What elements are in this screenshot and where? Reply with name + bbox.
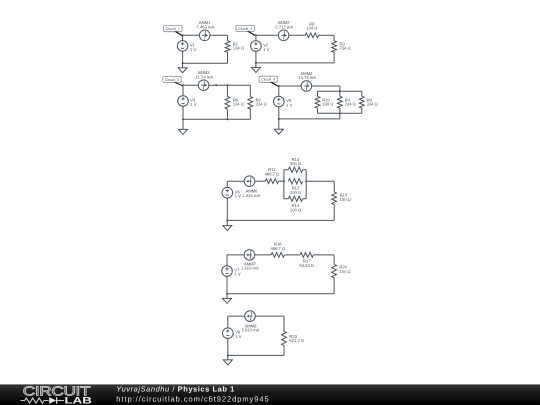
wire V3 bottom lead: [182, 106, 184, 119]
node A3 junction: [182, 84, 184, 86]
wire node-to-AMM2: [256, 34, 278, 36]
junction c3 bottom: [182, 118, 184, 120]
wire node-to-AMM3: [183, 84, 198, 86]
resistor R11: [265, 179, 278, 184]
label R1 value 134 ohm: [233, 41, 244, 50]
resistor R3: [332, 41, 337, 53]
wire V7 top lead: [226, 255, 228, 266]
ground c1: [178, 63, 187, 72]
wire R13 right lead: [303, 169, 307, 171]
junction top rail c4: [339, 90, 341, 92]
label R16 value 466.7 ohm: [270, 242, 285, 251]
resistor R13: [288, 167, 302, 172]
wire V6 bottom lead: [226, 198, 228, 220]
label V3 value 1 V: [190, 98, 196, 107]
resistor R16: [271, 253, 284, 258]
wire V5 top lead: [278, 86, 280, 96]
ammeter AMM6: [244, 176, 255, 187]
label flag Circuit_2: [236, 25, 257, 36]
label R13 value 300 ohm: [290, 157, 301, 166]
svg-text:100 Ω: 100 Ω: [290, 207, 301, 212]
svg-text:300 Ω: 300 Ω: [290, 161, 301, 166]
wire right rail c5: [305, 170, 307, 199]
label AMM3 value -11.74 mA: [194, 70, 213, 79]
wire down to top rail c4: [339, 86, 341, 91]
label R14 value 100 ohm: [290, 203, 301, 212]
wire V1 bottom lead: [182, 51, 184, 63]
label R15 value 100 ohm: [340, 193, 351, 202]
svg-text:1 V: 1 V: [263, 47, 269, 52]
node A2 junction: [255, 34, 257, 36]
resistor R1: [225, 41, 230, 53]
wire V5 bottom lead: [278, 107, 280, 119]
resistor R17: [300, 253, 313, 258]
wire V8 top lead: [227, 316, 229, 328]
ground c6: [223, 294, 232, 304]
wire V2 top lead: [255, 35, 257, 40]
ground c5: [223, 220, 232, 230]
wire V6-to-AMM6: [227, 180, 244, 182]
label R2 value 234 ohm: [256, 98, 267, 107]
label AMM1 value -7.463 mA: [195, 20, 214, 29]
ammeter AMM8: [245, 311, 256, 322]
wire bottom rail c2: [256, 62, 334, 64]
label R9 value 334 ohm: [367, 97, 378, 106]
wire R4 top lead: [339, 91, 341, 96]
wire V7 bottom lead: [226, 276, 228, 293]
label AMM7 value 1.610 mA: [241, 262, 259, 271]
svg-text:234 Ω: 234 Ω: [256, 102, 267, 107]
label R8 value 134 ohm: [306, 21, 317, 30]
junction bottom rail c3: [226, 118, 228, 120]
wire R3 bottom lead: [333, 52, 335, 63]
resistor R12: [288, 179, 302, 184]
ground c3: [179, 119, 188, 134]
svg-text:Circuit_1: Circuit_1: [166, 27, 180, 31]
label V6 value 1 V: [235, 189, 241, 198]
wire R2 bottom lead: [249, 109, 251, 119]
label V7 value 1 V: [234, 267, 240, 276]
wire R14 left lead: [284, 198, 289, 200]
wire bottom rail c3: [183, 118, 250, 120]
wire bottom rail c1: [183, 62, 228, 64]
ground c4: [274, 119, 283, 134]
label V1 value 1 V: [190, 43, 196, 52]
label AMM4 value -14.73 mA: [297, 71, 316, 80]
voltage source V8: [223, 328, 234, 339]
resistor R14: [288, 196, 302, 201]
wire R6 bottom lead: [226, 109, 228, 119]
wire R1 top lead: [227, 35, 229, 41]
svg-text:1.610 mA: 1.610 mA: [242, 328, 260, 333]
wire R20 bottom lead: [333, 278, 335, 294]
ammeter AMM2: [278, 30, 289, 41]
svg-text:-14.73 mA: -14.73 mA: [297, 75, 316, 80]
ground c2: [251, 63, 260, 73]
wire R10 bottom lead: [317, 108, 319, 113]
svg-text:YuvrajSandhu / Physics Lab 1: YuvrajSandhu / Physics Lab 1: [116, 385, 235, 394]
junction c1 bottom: [182, 62, 184, 64]
wire down from bottom rail c4: [339, 113, 341, 119]
resistor R9: [359, 96, 364, 108]
svg-text:334 Ω: 334 Ω: [367, 102, 378, 107]
ammeter AMM7: [244, 250, 255, 261]
wire R10 top lead: [317, 91, 319, 96]
label R4 value 234 ohm: [345, 97, 356, 106]
logo diode symbol: [49, 397, 64, 403]
node A4 junction: [278, 85, 280, 87]
svg-text:466.7 Ω: 466.7 Ω: [265, 171, 280, 176]
label R20 value 100 ohm: [340, 265, 351, 274]
wire V6 top lead: [226, 181, 228, 187]
ammeter AMM3: [198, 80, 209, 91]
wire R9 bottom lead: [361, 108, 363, 113]
wire block-to-R15: [306, 180, 334, 182]
label R10 value 134 ohm: [322, 97, 333, 106]
svg-text:1 V: 1 V: [235, 194, 241, 199]
resistor R6: [225, 97, 230, 110]
resistor R15: [332, 192, 337, 204]
wire R8-to-corner: [319, 34, 335, 36]
wire R20 top lead: [333, 255, 335, 265]
wire R15 top lead: [333, 181, 335, 192]
wire V2 bottom lead: [255, 51, 257, 63]
svg-text:100 Ω: 100 Ω: [340, 269, 351, 274]
svg-text:http://circuitlab.com/c6t922dp: http://circuitlab.com/c6t922dpmy945: [116, 394, 269, 403]
svg-text:621.2 Ω: 621.2 Ω: [289, 338, 304, 343]
wire bottom rail c7: [228, 354, 284, 356]
resistor R2: [248, 97, 253, 110]
junction top rail c3 b: [226, 84, 228, 86]
wire R13 left lead: [284, 169, 289, 171]
label R23 value 621.2 ohm: [289, 334, 304, 343]
wire node-to-AMM4: [279, 85, 301, 87]
wire R1 bottom lead: [227, 52, 229, 63]
svg-text:Circuit_3: Circuit_3: [165, 78, 179, 82]
resistor R10: [315, 96, 320, 108]
wire AMM2-to-R8: [289, 34, 305, 36]
svg-text:1.610 mA: 1.610 mA: [241, 266, 259, 271]
svg-text:134 Ω: 134 Ω: [322, 102, 333, 107]
svg-text:234 Ω: 234 Ω: [345, 102, 356, 107]
resistor R4: [338, 96, 343, 108]
voltage source V2: [251, 41, 262, 52]
label flag Circuit_4: [259, 76, 279, 87]
logo LAB text: [65, 395, 93, 405]
label R3 value 234 ohm: [339, 41, 350, 50]
junction c2 bottom: [255, 62, 257, 64]
svg-text:466.7 Ω: 466.7 Ω: [270, 246, 285, 251]
svg-text:134 Ω: 134 Ω: [233, 102, 244, 107]
wire AMM7-to-R16: [255, 254, 271, 256]
wire left rail c5: [283, 170, 285, 199]
label AMM6 value 1.610 mA: [243, 189, 261, 198]
wire AMM8-to-corner: [255, 315, 284, 317]
resistor R23: [282, 331, 287, 345]
svg-text:134 Ω: 134 Ω: [233, 46, 244, 51]
svg-text:234 Ω: 234 Ω: [339, 46, 350, 51]
label V2 value 1 V: [263, 43, 269, 52]
ground c7: [223, 355, 232, 365]
label R6 value 134 ohm: [233, 98, 244, 107]
svg-text:1 V: 1 V: [235, 334, 241, 339]
svg-text:Circuit_4: Circuit_4: [261, 78, 275, 82]
label R12 value 200 ohm: [290, 186, 301, 195]
svg-text:Circuit_2: Circuit_2: [238, 27, 252, 31]
wire R9 top lead: [361, 91, 363, 96]
svg-text:200 Ω: 200 Ω: [290, 190, 301, 195]
wire AMM1-to-R1: [210, 34, 228, 36]
wire R14 right lead: [303, 198, 307, 200]
wire V8 bottom lead: [227, 339, 229, 356]
label R17 value 54.54 ohm: [299, 259, 314, 268]
node A1 junction: [182, 34, 184, 36]
ammeter AMM1: [199, 30, 210, 41]
svg-text:100 Ω: 100 Ω: [340, 197, 351, 202]
junction c6 bottom: [226, 293, 228, 295]
svg-text:54.54 Ω: 54.54 Ω: [299, 263, 314, 268]
resistor R8: [305, 33, 318, 38]
footer title YuvrajSandhu / Physics Lab 1: [116, 385, 235, 394]
wire AMM6-to-R11: [255, 180, 265, 182]
voltage source V3: [178, 96, 189, 107]
svg-text:1 V: 1 V: [190, 102, 196, 107]
label V5 value 1 V: [286, 98, 292, 107]
wire bottom rail c6: [227, 293, 334, 295]
wire R16-to-R17: [284, 254, 300, 256]
svg-text:-7.463 mA: -7.463 mA: [195, 24, 214, 29]
footer url: [116, 394, 269, 403]
junction c7 bottom: [227, 354, 229, 356]
junction right rail c5: [305, 180, 307, 182]
resistor R20: [332, 264, 337, 277]
svg-text:1.610 mA: 1.610 mA: [243, 193, 261, 198]
svg-text:-11.74 mA: -11.74 mA: [194, 74, 213, 79]
label R11 value 466.7 ohm: [265, 167, 280, 176]
wire top rail c4: [318, 90, 362, 92]
wire R17-to-corner: [313, 254, 334, 256]
voltage source V1: [177, 41, 188, 52]
wire bottom rail c5: [227, 219, 334, 221]
wire bottom c4: [279, 118, 340, 120]
label flag Circuit_3: [163, 76, 184, 86]
svg-text:134 Ω: 134 Ω: [306, 26, 317, 31]
ammeter AMM4: [301, 81, 312, 92]
svg-text:1 V: 1 V: [190, 47, 196, 52]
junction c5 bottom: [226, 219, 228, 221]
wire node-to-AMM1: [183, 34, 200, 36]
svg-text:1 V: 1 V: [286, 102, 292, 107]
label AMM2 value -2.717 mA: [274, 20, 293, 29]
wire bottom rail c4: [318, 112, 362, 114]
wire V7-to-AMM7: [227, 254, 244, 256]
wire V3 top lead: [182, 85, 184, 96]
svg-text:-2.717 mA: -2.717 mA: [274, 24, 293, 29]
wire R2 top lead: [249, 85, 251, 96]
wire R4 bottom lead: [339, 108, 341, 113]
wire R23 bottom lead: [283, 345, 285, 355]
wire AMM3-to-branches top rail: [209, 84, 250, 86]
label AMM8 value 1.610 mA: [242, 323, 260, 332]
wire R23 top lead: [283, 316, 285, 331]
label flag Circuit_1: [164, 26, 184, 37]
svg-text:LAB: LAB: [65, 395, 93, 405]
wire V1 top lead: [182, 35, 184, 40]
logo CIRCUIT outlined text: [23, 384, 91, 399]
svg-text:1 V: 1 V: [234, 272, 240, 277]
voltage source V7: [222, 266, 233, 277]
wire AMM4-to-block: [312, 85, 340, 87]
junction top rail c3 a: [215, 84, 217, 86]
junction bottom rail c4: [339, 112, 341, 114]
label V8 value 1 V: [235, 330, 241, 339]
wire R6 top lead: [226, 85, 228, 96]
wire V8-to-AMM8: [228, 315, 245, 317]
wire R3 top lead: [333, 35, 335, 41]
junction c4 bottom: [278, 118, 280, 120]
voltage source V5: [274, 96, 285, 107]
logo resistor zigzag symbol: [21, 398, 49, 403]
wire R11-to-leftrail: [279, 180, 284, 182]
junction left rail c5: [283, 180, 285, 182]
footer bar: [0, 384, 540, 405]
wire R15 bottom lead: [333, 204, 335, 220]
voltage source V6: [222, 187, 233, 198]
